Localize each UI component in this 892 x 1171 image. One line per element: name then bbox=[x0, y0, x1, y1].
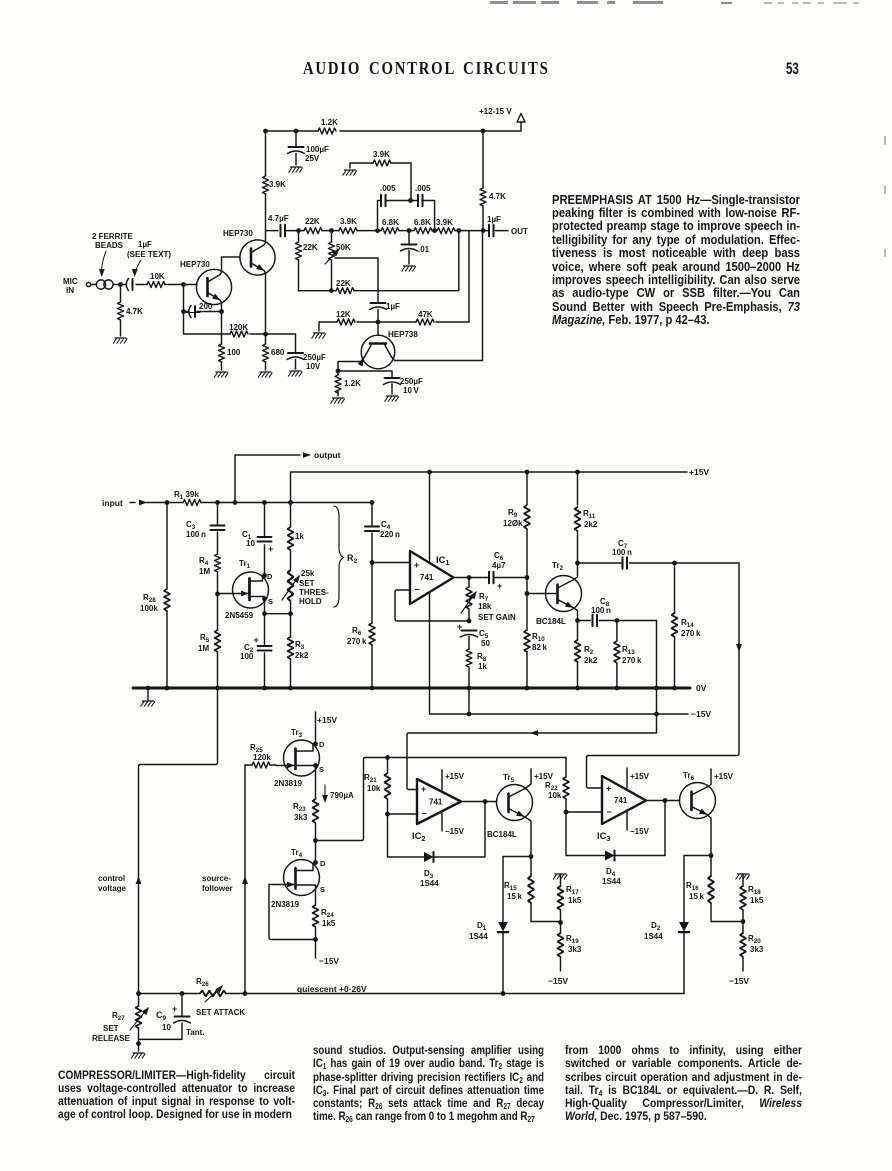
svg-text:10k: 10k bbox=[548, 791, 562, 800]
svg-text:S: S bbox=[268, 597, 273, 606]
svg-text:100 n: 100 n bbox=[591, 606, 611, 615]
svg-text:270 k: 270 k bbox=[681, 629, 701, 638]
svg-text:(SEE TEXT): (SEE TEXT) bbox=[127, 250, 171, 259]
svg-text:SET: SET bbox=[299, 579, 315, 588]
svg-text:voltage: voltage bbox=[98, 884, 127, 893]
svg-text:SET ATTACK: SET ATTACK bbox=[196, 1008, 245, 1017]
svg-text:R11: R11 bbox=[583, 509, 596, 520]
svg-text:D2: D2 bbox=[651, 921, 661, 932]
svg-text:120K: 120K bbox=[229, 323, 248, 332]
svg-text:12Øk: 12Øk bbox=[503, 519, 523, 528]
svg-text:R23: R23 bbox=[293, 802, 306, 813]
svg-text:22K: 22K bbox=[305, 217, 320, 226]
svg-text:−15V: −15V bbox=[445, 827, 465, 836]
svg-text:1k5: 1k5 bbox=[322, 919, 336, 928]
svg-text:2k2: 2k2 bbox=[584, 656, 598, 665]
svg-text:Tr4: Tr4 bbox=[291, 848, 303, 859]
svg-text:2 FERRITE: 2 FERRITE bbox=[92, 232, 134, 241]
svg-text:R21: R21 bbox=[364, 773, 377, 784]
svg-text:3k3: 3k3 bbox=[750, 945, 764, 954]
svg-text:+: + bbox=[606, 784, 611, 794]
svg-text:790µA: 790µA bbox=[330, 791, 354, 800]
svg-text:+: + bbox=[172, 1004, 177, 1014]
svg-text:R20: R20 bbox=[748, 934, 761, 945]
svg-text:680: 680 bbox=[271, 348, 285, 357]
svg-text:2N3819: 2N3819 bbox=[274, 779, 303, 788]
svg-text:2N5459: 2N5459 bbox=[225, 611, 254, 620]
svg-text:MIC: MIC bbox=[63, 277, 78, 286]
svg-text:THRES-: THRES- bbox=[299, 588, 329, 597]
svg-text:4µ7: 4µ7 bbox=[492, 561, 506, 570]
svg-text:R17: R17 bbox=[566, 885, 579, 896]
svg-text:Tr2: Tr2 bbox=[552, 561, 564, 572]
svg-text:1µF: 1µF bbox=[487, 215, 501, 224]
svg-text:−: − bbox=[415, 585, 420, 595]
svg-text:+15V: +15V bbox=[689, 467, 709, 477]
svg-text:follower: follower bbox=[202, 884, 233, 893]
svg-text:IC2: IC2 bbox=[412, 831, 426, 843]
svg-text:R1 39k: R1 39k bbox=[174, 490, 199, 501]
svg-text:R9: R9 bbox=[508, 508, 518, 519]
svg-text:D: D bbox=[320, 859, 326, 868]
svg-text:R13: R13 bbox=[622, 645, 635, 656]
svg-text:250µF: 250µF bbox=[400, 377, 423, 386]
svg-text:R28: R28 bbox=[143, 593, 156, 604]
svg-text:control: control bbox=[98, 874, 125, 883]
svg-text:22K: 22K bbox=[336, 279, 351, 288]
svg-text:SET: SET bbox=[103, 1024, 119, 1033]
svg-text:220 n: 220 n bbox=[380, 530, 400, 539]
svg-text:D: D bbox=[267, 572, 273, 581]
svg-text:1S44: 1S44 bbox=[420, 879, 439, 888]
svg-text:−15V: −15V bbox=[630, 827, 650, 836]
svg-text:R16: R16 bbox=[686, 881, 699, 892]
svg-text:HEP738: HEP738 bbox=[388, 330, 418, 339]
svg-text:.005: .005 bbox=[415, 184, 431, 193]
svg-text:4.7µF: 4.7µF bbox=[268, 214, 289, 223]
svg-text:82 k: 82 k bbox=[532, 643, 548, 652]
svg-text:3.9K: 3.9K bbox=[373, 150, 390, 159]
svg-text:6.8K: 6.8K bbox=[382, 218, 399, 227]
svg-text:C9: C9 bbox=[156, 1010, 167, 1022]
svg-text:100k: 100k bbox=[140, 604, 158, 613]
svg-text:R19: R19 bbox=[566, 934, 579, 945]
svg-text:−15V: −15V bbox=[691, 709, 711, 719]
svg-text:R14: R14 bbox=[681, 618, 694, 629]
svg-text:R18: R18 bbox=[748, 885, 761, 896]
svg-text:R2: R2 bbox=[347, 553, 358, 565]
svg-text:100: 100 bbox=[227, 348, 241, 357]
svg-text:10 V: 10 V bbox=[403, 386, 420, 395]
svg-text:SET GAIN: SET GAIN bbox=[478, 613, 516, 622]
svg-text:47K: 47K bbox=[418, 310, 433, 319]
svg-text:+15V: +15V bbox=[445, 772, 465, 781]
svg-text:D1: D1 bbox=[477, 921, 487, 932]
svg-text:R5: R5 bbox=[200, 633, 210, 644]
svg-text:R4: R4 bbox=[199, 556, 209, 567]
svg-text:Tr5: Tr5 bbox=[503, 773, 515, 784]
svg-text:BC184L: BC184L bbox=[487, 830, 517, 839]
svg-text:HEP730: HEP730 bbox=[180, 260, 210, 269]
svg-text:1.2K: 1.2K bbox=[344, 379, 361, 388]
svg-text:10: 10 bbox=[162, 1023, 171, 1032]
svg-text:200: 200 bbox=[199, 302, 213, 311]
svg-text:source-: source- bbox=[202, 874, 231, 883]
svg-text:3.9K: 3.9K bbox=[269, 180, 286, 189]
svg-text:10K: 10K bbox=[150, 272, 165, 281]
svg-text:3.9K: 3.9K bbox=[340, 217, 357, 226]
svg-text:2k2: 2k2 bbox=[295, 651, 309, 660]
svg-text:Tr3: Tr3 bbox=[291, 728, 303, 739]
svg-text:25k: 25k bbox=[301, 569, 315, 578]
svg-text:120k: 120k bbox=[253, 753, 271, 762]
svg-text:+: + bbox=[421, 784, 426, 794]
svg-text:3k3: 3k3 bbox=[294, 813, 308, 822]
svg-text:1S44: 1S44 bbox=[644, 932, 663, 941]
svg-text:R6: R6 bbox=[352, 626, 362, 637]
svg-text:1µF: 1µF bbox=[138, 240, 152, 249]
svg-text:741: 741 bbox=[420, 573, 434, 582]
svg-text:15 k: 15 k bbox=[507, 892, 523, 901]
svg-text:12K: 12K bbox=[336, 310, 351, 319]
svg-text:IN: IN bbox=[66, 286, 74, 295]
svg-text:+12-15 V: +12-15 V bbox=[479, 107, 512, 116]
svg-text:1µF: 1µF bbox=[386, 302, 400, 311]
svg-text:250µF: 250µF bbox=[303, 353, 326, 362]
svg-text:R10: R10 bbox=[532, 632, 545, 643]
svg-text:+15V: +15V bbox=[534, 772, 554, 781]
svg-text:6.8K: 6.8K bbox=[414, 218, 431, 227]
svg-text:+: + bbox=[254, 635, 259, 645]
svg-text:1S44: 1S44 bbox=[469, 932, 488, 941]
svg-text:0V: 0V bbox=[696, 683, 707, 693]
svg-text:+15V: +15V bbox=[630, 772, 650, 781]
svg-text:+: + bbox=[457, 622, 462, 632]
svg-text:741: 741 bbox=[429, 798, 443, 807]
svg-text:−15V: −15V bbox=[548, 976, 568, 986]
svg-text:IC1: IC1 bbox=[436, 555, 450, 567]
svg-text:+15V: +15V bbox=[317, 715, 337, 725]
svg-text:Tant.: Tant. bbox=[186, 1028, 205, 1037]
svg-text:1k5: 1k5 bbox=[568, 896, 582, 905]
svg-text:100µF: 100µF bbox=[306, 145, 329, 154]
svg-text:50: 50 bbox=[481, 639, 490, 648]
svg-text:output: output bbox=[314, 450, 341, 460]
svg-text:10k: 10k bbox=[367, 784, 381, 793]
svg-text:HEP730: HEP730 bbox=[223, 229, 253, 238]
svg-text:2N3819: 2N3819 bbox=[271, 900, 300, 909]
svg-text:BC184L: BC184L bbox=[536, 617, 566, 626]
svg-text:1S44: 1S44 bbox=[602, 877, 621, 886]
svg-text:+: + bbox=[414, 560, 419, 570]
svg-text:270 k: 270 k bbox=[622, 656, 642, 665]
svg-text:R2: R2 bbox=[584, 645, 594, 656]
svg-text:R27: R27 bbox=[112, 1011, 125, 1022]
svg-text:1k: 1k bbox=[478, 662, 487, 671]
svg-text:OUT: OUT bbox=[511, 227, 528, 236]
svg-text:100: 100 bbox=[240, 652, 254, 661]
svg-text:RELEASE: RELEASE bbox=[92, 1034, 130, 1043]
svg-text:4.7K: 4.7K bbox=[489, 192, 506, 201]
svg-text:IC3: IC3 bbox=[597, 831, 611, 843]
svg-text:R15: R15 bbox=[504, 881, 517, 892]
svg-text:Tr1: Tr1 bbox=[239, 559, 251, 570]
svg-text:R3: R3 bbox=[295, 640, 305, 651]
svg-text:R26: R26 bbox=[196, 977, 209, 988]
svg-text:741: 741 bbox=[614, 796, 628, 805]
svg-text:input: input bbox=[102, 498, 123, 508]
svg-text:10: 10 bbox=[246, 539, 255, 548]
svg-text:100 n: 100 n bbox=[186, 530, 206, 539]
svg-text:−: − bbox=[607, 807, 612, 817]
svg-text:3.9K: 3.9K bbox=[436, 218, 453, 227]
svg-text:100 n: 100 n bbox=[612, 548, 632, 557]
svg-text:1k5: 1k5 bbox=[750, 896, 764, 905]
svg-text:−15V: −15V bbox=[319, 956, 339, 966]
svg-text:+: + bbox=[268, 544, 273, 554]
svg-text:quiescent +0·26V: quiescent +0·26V bbox=[297, 984, 367, 994]
svg-text:1.2K: 1.2K bbox=[321, 118, 338, 127]
svg-text:15 k: 15 k bbox=[689, 892, 705, 901]
svg-text:.005: .005 bbox=[380, 184, 396, 193]
svg-text:22K: 22K bbox=[303, 243, 318, 252]
svg-text:1k: 1k bbox=[295, 532, 304, 541]
svg-text:2k2: 2k2 bbox=[584, 520, 598, 529]
svg-text:−: − bbox=[422, 809, 427, 819]
svg-text:+: + bbox=[497, 581, 502, 591]
svg-text:S: S bbox=[320, 885, 325, 894]
svg-text:4.7K: 4.7K bbox=[126, 307, 143, 316]
svg-text:270 k: 270 k bbox=[347, 637, 367, 646]
svg-text:S: S bbox=[319, 765, 324, 774]
svg-text:25V: 25V bbox=[305, 154, 320, 163]
svg-text:D: D bbox=[319, 740, 325, 749]
svg-text:10V: 10V bbox=[306, 362, 321, 371]
svg-text:+15V: +15V bbox=[714, 772, 734, 781]
svg-text:BEADS: BEADS bbox=[95, 241, 124, 250]
svg-text:3k3: 3k3 bbox=[568, 945, 582, 954]
svg-text:1M: 1M bbox=[199, 567, 210, 576]
svg-text:.01: .01 bbox=[418, 245, 430, 254]
svg-text:1M: 1M bbox=[198, 644, 209, 653]
svg-text:18k: 18k bbox=[478, 602, 492, 611]
svg-text:R24: R24 bbox=[321, 908, 334, 919]
svg-text:HOLD: HOLD bbox=[299, 597, 322, 606]
svg-text:Tr6: Tr6 bbox=[683, 771, 695, 782]
svg-text:−15V: −15V bbox=[729, 976, 749, 986]
